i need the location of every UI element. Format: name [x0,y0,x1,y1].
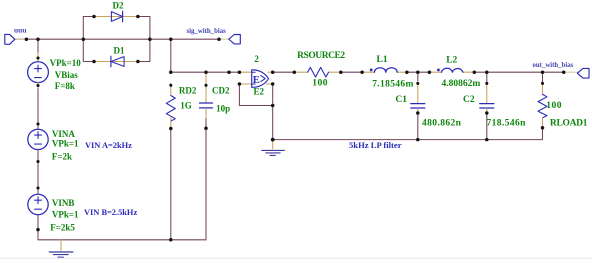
wire C2 drop [486,72,488,83]
resistor RD2 [166,86,197,122]
pin stub E2 out- [267,83,273,85]
pin stub CD2 bottom [205,108,207,118]
wire bottom rail right [273,139,543,141]
port sig_with_bias [187,28,241,44]
svg-text:10p: 10p [216,103,230,113]
pin stub RD2 top [170,83,172,95]
svg-text:VBias: VBias [55,70,79,80]
svg-text:F=2k5: F=2k5 [50,222,75,232]
svg-text:L2: L2 [446,55,457,65]
svg-text:1G: 1G [180,100,192,110]
pin stub E2 out+ [268,71,273,73]
pin stubs RSOURCE2 [294,71,307,73]
svg-text:uuu: uuu [14,26,27,35]
voltage source VINB [28,194,138,232]
wire drop bus to lower bus [170,39,172,72]
svg-text:sig_with_bias: sig_with_bias [187,28,227,35]
diode D2 [111,1,124,22]
svg-text:RSOURCE2: RSOURCE2 [297,51,345,61]
svg-text:D2: D2 [113,1,124,11]
svg-text:F=2k: F=2k [52,151,72,161]
pin stub VBias bottom [37,83,39,89]
wire C2 to bottom rail [486,113,488,140]
capacitor C1 [395,95,461,129]
inductor L2 [437,55,480,89]
wire VINA to VINB [37,150,39,195]
port out_with_bias [533,62,590,78]
wire RLOAD1 to bottom rail [542,128,544,140]
pin stub RLOAD1 bottom [542,118,544,128]
wire L2 to out port [474,71,563,73]
wire D1 branch [83,61,150,63]
svg-text:VIN A=2kHz: VIN A=2kHz [85,141,132,150]
diode loop left vertical [82,17,84,62]
wire E2 in- loop [239,84,272,106]
pin stub CD2 top [205,72,207,102]
ground 1 [49,240,73,257]
svg-text:C1: C1 [395,95,407,105]
ground 2 [262,140,285,156]
pin stub E2 in- [239,83,251,85]
wire top bus [15,38,220,40]
dependent source E2 [252,54,269,97]
wire port1 stub [15,38,27,40]
svg-text:VINB: VINB [52,198,75,208]
wire RD2 bottom riser [170,129,172,240]
svg-text:L1: L1 [377,55,388,65]
wire C1 to bottom rail [417,113,419,140]
svg-text:C2: C2 [463,95,475,105]
wire CD2 bottom riser [205,118,207,240]
pin stubs L1 [362,71,374,73]
capacitor CD2 [200,86,231,114]
diode D1 [111,46,125,67]
svg-text:5kHz LP filter: 5kHz LP filter [349,140,402,150]
svg-text:out_with_bias: out_with_bias [533,62,574,69]
wire L1 to C1 node [407,71,430,73]
inductor L1 [370,55,414,90]
pin stubs L2 [429,71,441,73]
svg-text:VPk=1: VPk=1 [52,209,79,219]
svg-text:VIN B=2.5kHz: VIN B=2.5kHz [84,208,137,217]
svg-text:VPk=10: VPk=10 [50,58,82,68]
voltage source VINA [28,129,132,161]
wire E2 out+ to RSOURCE2 [273,71,295,73]
resistor RLOAD1 [538,94,588,128]
resistor RSOURCE2 [297,51,345,89]
wire VBias to VINA [37,83,39,130]
svg-text:4.80862m: 4.80862m [442,79,481,89]
pin stub C2 bottom [486,109,488,114]
pin stub E2 in+ [239,71,251,73]
svg-text:VPk=1: VPk=1 [52,138,79,148]
capacitor C2 [463,95,526,129]
bottom edge artifact line [0,257,592,259]
svg-text:CD2: CD2 [212,86,230,96]
voltage source VBias [28,58,82,91]
pin stubs D1 [94,61,111,63]
svg-text:E: E [253,75,260,86]
wire VINB to left rail corner [38,215,206,240]
svg-text:RD2: RD2 [179,86,197,96]
svg-text:7.18546m: 7.18546m [372,80,414,90]
wire lower bus [171,71,240,73]
pin stub sig port [219,38,229,40]
svg-text:2: 2 [254,54,259,64]
svg-text:RLOAD1: RLOAD1 [550,119,588,129]
wire E2 out- to ground rail [272,84,274,140]
wire RSOURCE2 to L1 [341,71,362,73]
svg-text:E2: E2 [254,86,265,96]
pin stubs D2 [94,16,123,18]
svg-text:100: 100 [546,101,562,111]
svg-text:718.546n: 718.546n [487,119,527,129]
pin stub C1 bottom [417,109,419,114]
port uuu [5,26,27,45]
pin stub C2 top [486,83,488,103]
svg-text:480.862n: 480.862n [422,119,462,129]
pin stub out port [564,71,578,73]
diode loop right vertical [149,17,151,62]
pin stub VBias top [37,53,39,62]
svg-text:D1: D1 [114,46,125,56]
pin stub C1 top [417,83,419,103]
svg-text:F=8k: F=8k [55,81,75,91]
wire C1 drop [417,72,419,81]
wire RLOAD1 drop [542,72,544,83]
wire VBias drop from bus [37,39,39,62]
svg-text:100: 100 [312,79,328,89]
wire D2 branch [83,16,150,18]
pin stub RLOAD1 top [542,83,544,94]
pin stub RD2 bottom [170,117,172,129]
